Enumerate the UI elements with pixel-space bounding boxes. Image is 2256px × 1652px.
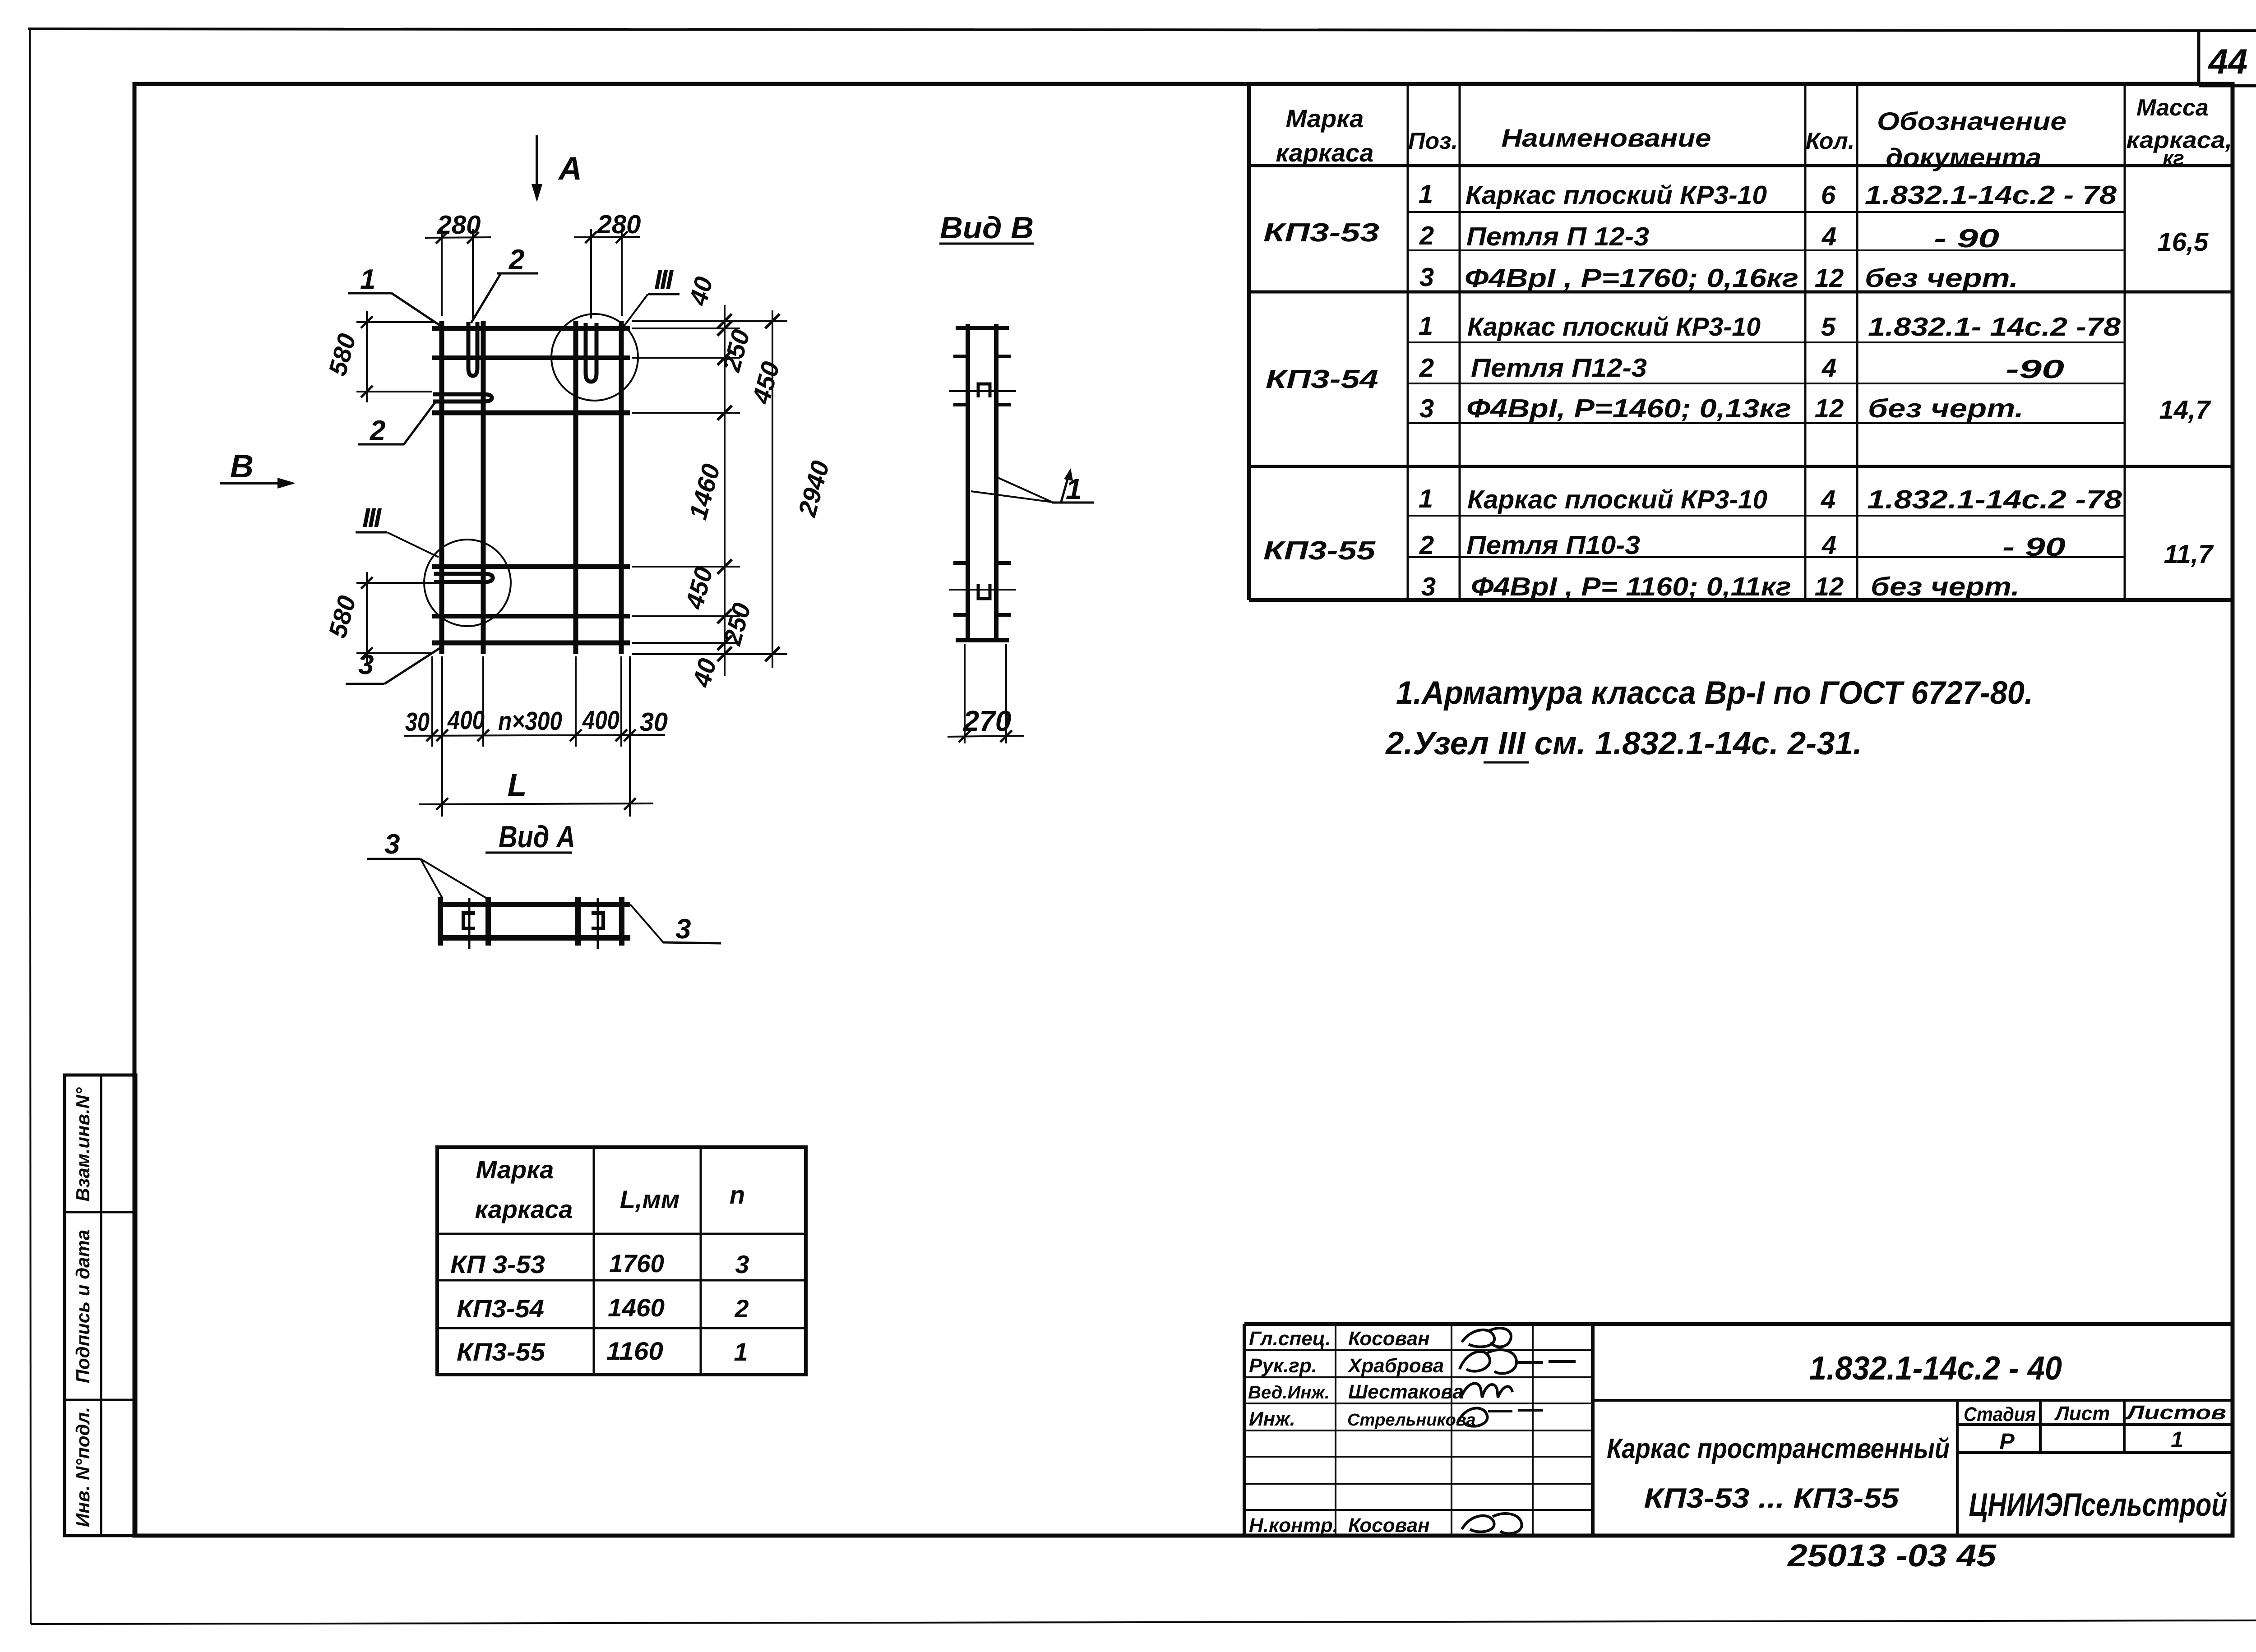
- svg-text:Каркас пространственный: Каркас пространственный: [1607, 1433, 1950, 1464]
- spec table row lines: [1408, 212, 2125, 557]
- small table header: [475, 1155, 745, 1223]
- plan vertical cage bar 2: [481, 321, 486, 654]
- svg-text:Марка: Марка: [476, 1155, 554, 1184]
- svg-text:Петля П12-3: Петля П12-3: [1471, 353, 1647, 383]
- view B dim 270: [948, 644, 1024, 743]
- svg-text:Каркас плоский КР3-10: Каркас плоский КР3-10: [1465, 180, 1767, 210]
- svg-text:14,7: 14,7: [2159, 395, 2212, 425]
- svg-text:1.832.1-14с.2 - 40: 1.832.1-14с.2 - 40: [1809, 1349, 2062, 1387]
- leader label III top right: [624, 264, 680, 327]
- view A leader 3 right: [630, 904, 721, 945]
- svg-text:16,5: 16,5: [2158, 227, 2209, 257]
- spec rows group KP3-55: [1263, 484, 2214, 601]
- plan cross wire 3: [432, 411, 630, 415]
- svg-text:30: 30: [405, 707, 430, 737]
- spec table outline: [1249, 86, 2233, 600]
- svg-text:КП3-55: КП3-55: [1263, 536, 1376, 565]
- svg-text:кг: кг: [2163, 146, 2184, 170]
- svg-text:-90: -90: [2006, 355, 2064, 384]
- sheet number box 44: [2199, 31, 2256, 86]
- note line 2 underline for III: [1484, 761, 1529, 764]
- view B upper loop: [978, 384, 990, 397]
- right dimension line 1: [717, 305, 732, 676]
- svg-text:Стадия: Стадия: [1964, 1403, 2036, 1426]
- svg-text:270: 270: [963, 705, 1012, 737]
- svg-text:без черт.: без черт.: [1868, 394, 2024, 423]
- svg-text:3: 3: [1419, 394, 1434, 423]
- svg-text:1.832.1- 14с.2 -78: 1.832.1- 14с.2 -78: [1868, 312, 2121, 341]
- svg-text:4: 4: [1821, 222, 1836, 251]
- svg-text:L,мм: L,мм: [620, 1185, 680, 1214]
- view B left chord: [966, 324, 970, 642]
- view B lower loop line: [949, 589, 1016, 591]
- svg-text:5: 5: [1821, 312, 1836, 341]
- svg-text:400: 400: [447, 706, 485, 735]
- svg-text:Гл.спец.: Гл.спец.: [1249, 1328, 1331, 1350]
- svg-text:30: 30: [640, 707, 668, 737]
- svg-text:Инж.: Инж.: [1249, 1408, 1295, 1430]
- view A cross wire 3: [575, 897, 581, 946]
- svg-text:Вид А: Вид А: [499, 820, 575, 854]
- svg-text:1: 1: [1419, 180, 1433, 209]
- view A bottom chord: [438, 935, 630, 941]
- svg-text:12: 12: [1815, 263, 1844, 293]
- view A cross wire 4: [619, 897, 624, 946]
- svg-text:1: 1: [360, 264, 375, 295]
- svg-text:Каркас плоский КР3-10: Каркас плоский КР3-10: [1467, 312, 1761, 341]
- section arrow B: [220, 448, 296, 489]
- svg-text:2: 2: [509, 244, 524, 275]
- view A loop wire left: [468, 898, 471, 949]
- title block stage cells: [1964, 1402, 2226, 1454]
- svg-text:4: 4: [1821, 353, 1836, 383]
- svg-text:без черт.: без черт.: [1865, 263, 2018, 293]
- svg-text:12: 12: [1815, 572, 1844, 601]
- svg-text:Взам.инв.N°: Взам.инв.N°: [72, 1087, 93, 1201]
- lifting loop top left: [468, 322, 477, 376]
- svg-text:1: 1: [1419, 311, 1433, 341]
- lifting loop middle left: [433, 394, 492, 401]
- spec rows group KP3-53: [1263, 180, 2209, 293]
- svg-text:n: n: [730, 1181, 745, 1209]
- svg-text:А: А: [558, 151, 582, 187]
- plan vertical cage bar 3: [573, 321, 578, 654]
- svg-text:2: 2: [734, 1294, 749, 1323]
- svg-text:Ф4ВрI, Р=1460; 0,13кг: Ф4ВрI, Р=1460; 0,13кг: [1466, 394, 1791, 423]
- svg-text:Петля П 12-3: Петля П 12-3: [1466, 222, 1649, 251]
- view B title: [939, 211, 1034, 245]
- spec table header bottom and group lines: [1249, 166, 2233, 466]
- svg-text:Листов: Листов: [2125, 1402, 2226, 1424]
- spec table header texts: [1276, 95, 2233, 171]
- svg-text:2: 2: [1419, 531, 1434, 560]
- svg-text:4: 4: [1821, 485, 1835, 514]
- lifting loop bottom left: [434, 574, 493, 582]
- plan cross wire 5: [432, 614, 630, 618]
- leader label 3 bottom left: [346, 646, 443, 684]
- svg-text:- 90: - 90: [1934, 224, 1999, 253]
- svg-text:Марка: Марка: [1286, 104, 1364, 133]
- svg-text:Каркас плоский КР3-10: Каркас плоский КР3-10: [1467, 485, 1767, 514]
- bottom dimension chain extension lines: [432, 656, 630, 817]
- right dimension chain extension lines: [632, 321, 787, 654]
- svg-text:400: 400: [582, 706, 619, 735]
- svg-text:2.Узел III см. 1.832.1-14с.: 2.Узел III см. 1.832.1-14с. 2-31.: [1385, 725, 1862, 761]
- view B right chord: [994, 324, 999, 642]
- view A cross wire 1: [438, 897, 443, 946]
- svg-text:КП3-53 ... КП3-55: КП3-53 ... КП3-55: [1644, 1483, 1900, 1514]
- plan vertical cage bar 1: [439, 321, 444, 654]
- view A loop left: [463, 913, 475, 928]
- svg-text:Вид В: Вид В: [940, 211, 1034, 245]
- svg-text:1.832.1-14с.2 -78: 1.832.1-14с.2 -78: [1867, 485, 2122, 514]
- svg-text:Кол.: Кол.: [1806, 128, 1855, 154]
- svg-text:1.Арматура класса Вр-I по Г: 1.Арматура класса Вр-I по ГОСТ 6727-80.: [1396, 675, 2033, 711]
- svg-text:3: 3: [384, 829, 400, 860]
- svg-text:Наименование: Наименование: [1502, 124, 1711, 152]
- svg-text:2: 2: [370, 415, 385, 446]
- small table rows: [450, 1249, 749, 1366]
- svg-text:каркаса: каркаса: [1276, 138, 1374, 167]
- svg-text:Косован: Косован: [1348, 1514, 1430, 1537]
- svg-text:Вед.Инж.: Вед.Инж.: [1248, 1383, 1330, 1403]
- title block right grid: [1593, 1400, 2233, 1536]
- svg-text:L: L: [508, 767, 527, 803]
- plan cross wire 6: [432, 641, 630, 646]
- svg-text:III: III: [654, 264, 674, 295]
- svg-text:4: 4: [1821, 531, 1836, 560]
- svg-text:документа: документа: [1886, 143, 2042, 171]
- dim 280 right: [574, 210, 641, 318]
- svg-text:каркаса: каркаса: [475, 1195, 573, 1223]
- svg-text:Обозначение: Обозначение: [1877, 107, 2066, 135]
- right dimension line 2 overall: [765, 310, 780, 668]
- svg-text:1.832.1-14с.2 - 78: 1.832.1-14с.2 - 78: [1865, 180, 2117, 210]
- plan cross wire 2: [432, 355, 630, 360]
- small table grid: [437, 1147, 806, 1375]
- svg-text:3: 3: [735, 1250, 749, 1278]
- spec table column lines: [1408, 86, 2125, 600]
- svg-text:1160: 1160: [606, 1337, 663, 1365]
- title block signature texts: [1248, 1328, 1475, 1537]
- svg-text:Шестакова: Шестакова: [1348, 1381, 1464, 1403]
- svg-text:В: В: [230, 448, 254, 485]
- plan cross wire 4: [432, 564, 630, 569]
- title block signature grid: [1244, 1324, 1593, 1536]
- view A top chord: [438, 902, 630, 907]
- svg-text:3: 3: [675, 914, 691, 945]
- signature squiggles: [1457, 1328, 1576, 1534]
- view B wire stubs: [953, 356, 1011, 615]
- svg-text:1: 1: [1419, 484, 1433, 513]
- view B leader 1: [971, 468, 1094, 505]
- svg-text:КП3-54: КП3-54: [457, 1294, 544, 1323]
- svg-text:КП3-54: КП3-54: [1266, 365, 1378, 394]
- svg-text:Н.контр.: Н.контр.: [1249, 1514, 1338, 1537]
- view B lower loop: [978, 584, 990, 599]
- svg-text:Р: Р: [1999, 1429, 2015, 1454]
- svg-text:без черт.: без черт.: [1871, 572, 2020, 601]
- dim L: [419, 767, 653, 810]
- dim 280 left: [425, 210, 491, 318]
- svg-text:280: 280: [597, 210, 641, 239]
- view A loop right: [592, 913, 603, 928]
- svg-text:Лист: Лист: [2054, 1403, 2110, 1425]
- svg-text:Инв. N°подл.: Инв. N°подл.: [72, 1407, 93, 1527]
- svg-text:Косован: Косован: [1348, 1328, 1430, 1350]
- svg-text:280: 280: [437, 210, 481, 240]
- view A loop wire right: [597, 898, 599, 949]
- plan cross wire 1: [432, 326, 630, 331]
- svg-text:ЦНИИЭПсельстрой: ЦНИИЭПсельстрой: [1969, 1487, 2228, 1523]
- svg-text:Поз.: Поз.: [1408, 128, 1458, 154]
- bottom dimension line: [404, 729, 665, 741]
- svg-text:1460: 1460: [608, 1293, 665, 1322]
- title block outline: [1244, 1324, 2233, 1536]
- view A leader 3 top left: [367, 829, 487, 899]
- dim 580 bottom left: [323, 572, 434, 664]
- leader label 2 top: [471, 244, 538, 323]
- section arrow A: [532, 135, 582, 202]
- svg-text:44: 44: [2208, 42, 2248, 81]
- svg-text:КП3-53: КП3-53: [1263, 218, 1379, 247]
- detail circle top right: [551, 314, 638, 401]
- svg-text:Рук.гр.: Рук.гр.: [1249, 1355, 1317, 1377]
- svg-text:Стрельникова: Стрельникова: [1347, 1411, 1475, 1430]
- leader label 1: [348, 264, 442, 327]
- svg-text:n×300: n×300: [498, 706, 562, 736]
- lifting loop top right: [586, 323, 596, 382]
- svg-text:2: 2: [1419, 353, 1434, 383]
- svg-text:1760: 1760: [609, 1249, 664, 1278]
- svg-text:КП 3-53: КП 3-53: [450, 1250, 545, 1278]
- svg-text:2: 2: [1419, 221, 1434, 250]
- spec rows group KP3-54: [1266, 311, 2211, 425]
- view B top cap wire: [956, 326, 1009, 330]
- svg-text:1: 1: [2171, 1427, 2183, 1452]
- svg-text:3: 3: [1421, 572, 1436, 601]
- svg-text:25013 -03 45: 25013 -03 45: [1787, 1538, 1997, 1573]
- svg-text:Ф4ВрI , Р= 1160; 0,11кг: Ф4ВрI , Р= 1160; 0,11кг: [1471, 572, 1791, 601]
- svg-text:Петля П10-3: Петля П10-3: [1466, 531, 1640, 560]
- plan vertical cage bar 4: [619, 321, 624, 654]
- svg-text:3: 3: [1419, 263, 1434, 292]
- view B upper loop line: [949, 390, 1016, 392]
- detail circle bottom left: [424, 540, 511, 626]
- dim 580 top left: [323, 311, 434, 402]
- svg-text:Подпись и дата: Подпись и дата: [72, 1230, 93, 1383]
- view B bottom cap wire: [956, 638, 1009, 642]
- leader label 2 middle: [358, 400, 437, 446]
- svg-text:1: 1: [734, 1338, 748, 1366]
- left margin stamp column: [65, 1075, 136, 1536]
- leader label III middle left: [356, 503, 439, 557]
- svg-text:- 90: - 90: [2002, 532, 2066, 562]
- svg-text:Ф4ВрI , Р=1760; 0,16кг: Ф4ВрI , Р=1760; 0,16кг: [1465, 263, 1798, 293]
- view A cross wire 2: [485, 897, 491, 946]
- view A title: [485, 820, 575, 854]
- svg-text:КП3-55: КП3-55: [457, 1338, 546, 1366]
- svg-text:12: 12: [1815, 394, 1844, 423]
- svg-text:III: III: [362, 503, 382, 533]
- svg-text:11,7: 11,7: [2164, 540, 2214, 569]
- svg-text:Храброва: Храброва: [1347, 1355, 1444, 1377]
- svg-text:Масса: Масса: [2136, 95, 2209, 121]
- svg-text:6: 6: [1821, 180, 1836, 210]
